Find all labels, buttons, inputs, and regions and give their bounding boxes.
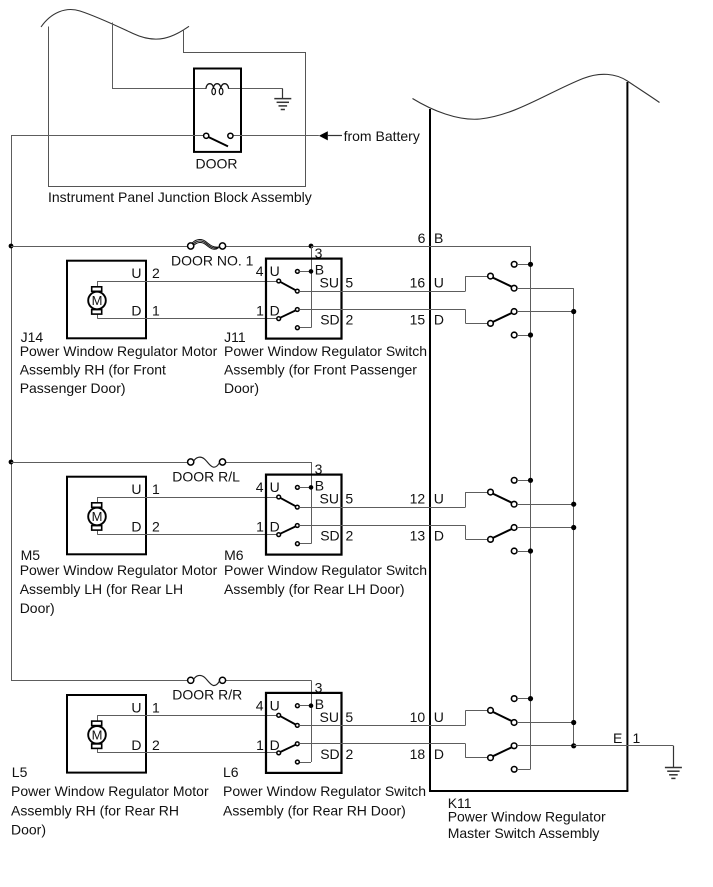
svg-text:Power Window Regulator Motor: Power Window Regulator Motor: [20, 562, 218, 578]
svg-text:DOOR R/R: DOOR R/R: [172, 687, 242, 703]
svg-text:1: 1: [633, 730, 641, 746]
svg-text:2: 2: [152, 265, 160, 281]
svg-text:1: 1: [256, 519, 264, 535]
svg-text:Power Window Regulator Motor: Power Window Regulator Motor: [11, 783, 209, 799]
svg-text:SU: SU: [320, 275, 339, 291]
svg-text:Assembly RH (for Front: Assembly RH (for Front: [20, 361, 166, 377]
svg-text:U: U: [270, 479, 280, 495]
svg-text:2: 2: [346, 312, 354, 328]
svg-text:SU: SU: [320, 491, 339, 507]
svg-text:1: 1: [152, 699, 160, 715]
svg-text:M5: M5: [21, 547, 41, 563]
svg-text:E: E: [613, 730, 622, 746]
svg-text:U: U: [131, 699, 141, 715]
svg-text:1: 1: [256, 303, 264, 319]
svg-text:6: 6: [418, 230, 426, 246]
svg-text:18: 18: [410, 746, 426, 762]
svg-text:from Battery: from Battery: [344, 128, 420, 144]
svg-text:2: 2: [152, 519, 160, 535]
svg-text:Door): Door): [11, 822, 46, 838]
svg-text:M6: M6: [224, 547, 244, 563]
svg-text:Power Window Regulator Switch: Power Window Regulator Switch: [223, 783, 426, 799]
svg-text:Assembly RH (for Rear RH: Assembly RH (for Rear RH: [11, 802, 179, 818]
svg-text:Door): Door): [20, 600, 55, 616]
svg-text:U: U: [434, 275, 444, 291]
svg-text:Assembly (for Rear RH Door): Assembly (for Rear RH Door): [223, 802, 406, 818]
svg-text:2: 2: [346, 528, 354, 544]
svg-text:1: 1: [256, 737, 264, 753]
svg-text:1: 1: [152, 481, 160, 497]
svg-text:15: 15: [410, 312, 426, 328]
svg-text:12: 12: [410, 491, 426, 507]
svg-text:D: D: [434, 746, 444, 762]
svg-text:Assembly (for Rear LH Door): Assembly (for Rear LH Door): [224, 581, 405, 597]
svg-text:5: 5: [345, 275, 353, 291]
svg-text:Master Switch Assembly: Master Switch Assembly: [448, 825, 600, 841]
svg-text:Power Window Regulator Switch: Power Window Regulator Switch: [224, 343, 427, 359]
svg-text:SD: SD: [320, 528, 339, 544]
svg-text:5: 5: [345, 491, 353, 507]
svg-text:4: 4: [256, 263, 264, 279]
svg-text:2: 2: [152, 737, 160, 753]
svg-text:Power Window Regulator Switch: Power Window Regulator Switch: [224, 562, 427, 578]
svg-text:1: 1: [152, 303, 160, 319]
svg-text:4: 4: [256, 479, 264, 495]
svg-text:DOOR NO. 1: DOOR NO. 1: [171, 252, 254, 268]
svg-text:SD: SD: [320, 312, 339, 328]
svg-text:D: D: [131, 519, 141, 535]
svg-text:2: 2: [346, 746, 354, 762]
svg-text:DOOR: DOOR: [196, 156, 238, 172]
svg-text:10: 10: [410, 709, 426, 725]
svg-text:Door): Door): [224, 380, 259, 396]
svg-text:4: 4: [256, 697, 264, 713]
svg-text:M: M: [92, 293, 103, 308]
svg-text:Power Window Regulator: Power Window Regulator: [448, 809, 606, 825]
svg-text:D: D: [434, 528, 444, 544]
svg-text:D: D: [434, 312, 444, 328]
svg-text:16: 16: [410, 275, 426, 291]
svg-text:Power Window Regulator Motor: Power Window Regulator Motor: [20, 343, 218, 359]
svg-text:SD: SD: [320, 746, 339, 762]
svg-text:L5: L5: [12, 764, 28, 780]
svg-text:U: U: [434, 709, 444, 725]
svg-text:SU: SU: [320, 709, 339, 725]
svg-text:M: M: [92, 509, 103, 524]
svg-text:5: 5: [345, 709, 353, 725]
svg-text:U: U: [270, 697, 280, 713]
svg-text:U: U: [270, 263, 280, 279]
svg-text:D: D: [131, 303, 141, 319]
svg-text:U: U: [131, 265, 141, 281]
svg-text:U: U: [434, 491, 444, 507]
svg-text:D: D: [131, 737, 141, 753]
svg-text:Passenger Door): Passenger Door): [20, 380, 126, 396]
svg-text:B: B: [434, 230, 443, 246]
svg-text:DOOR R/L: DOOR R/L: [172, 468, 240, 484]
svg-text:M: M: [92, 728, 103, 743]
svg-text:U: U: [131, 481, 141, 497]
svg-text:13: 13: [410, 528, 426, 544]
svg-text:Instrument Panel Junction Bloc: Instrument Panel Junction Block Assembly: [48, 189, 312, 205]
svg-text:Assembly (for Front Passenger: Assembly (for Front Passenger: [224, 361, 417, 377]
svg-text:L6: L6: [223, 764, 239, 780]
svg-text:Assembly LH (for Rear LH: Assembly LH (for Rear LH: [20, 581, 183, 597]
